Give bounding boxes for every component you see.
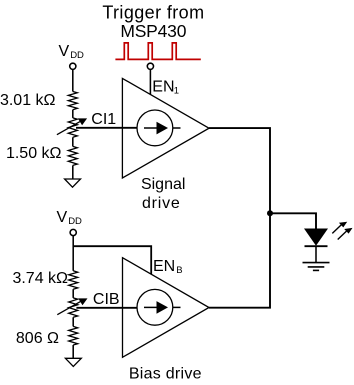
wire pot2 tap to amp input (76, 307, 137, 309)
svg-text:806 Ω: 806 Ω (16, 330, 59, 347)
svg-text:V: V (57, 209, 68, 226)
svg-text:Trigger from: Trigger from (102, 3, 204, 23)
svg-text:V: V (59, 43, 70, 60)
potentiometer body (bottom trimmer) (69, 298, 78, 317)
op-amp U1 signal drive triangle (122, 78, 209, 178)
svg-text:B: B (176, 265, 182, 276)
label ENB (153, 258, 183, 276)
wire pot to R2 (72, 137, 74, 146)
wire pot2 to R4 (72, 317, 74, 326)
ground (top divider) (65, 179, 81, 187)
svg-text:DD: DD (68, 216, 82, 227)
label EN1 (152, 79, 179, 97)
svg-text:3.74 kΩ: 3.74 kΩ (12, 270, 68, 287)
svg-text:Signal: Signal (141, 176, 185, 193)
power VDD (top) (59, 43, 85, 61)
resistor R2 1.50 k (68, 146, 77, 165)
wire U1 output to junction rail (209, 128, 270, 308)
wiper arrow (bottom trimmer) (57, 302, 80, 315)
svg-text:CIB: CIB (93, 291, 120, 308)
earth ground (LED) (303, 263, 330, 271)
wire LED to earth ground (315, 246, 317, 262)
svg-text:Bias drive: Bias drive (129, 365, 202, 382)
wire R1 to pot (72, 110, 74, 118)
wire VDD branch to ENB pin (73, 246, 151, 274)
wire R2 to ground (72, 165, 74, 179)
junction node (267, 210, 273, 216)
ground (bottom divider) (65, 358, 81, 366)
svg-text:CI1: CI1 (91, 111, 116, 128)
potentiometer body (top trimmer) (68, 118, 77, 137)
wire current source right stub (173, 127, 181, 129)
svg-text:EN: EN (153, 258, 175, 275)
resistor R4 806 (69, 326, 78, 345)
resistor R1 3.01 k (68, 92, 77, 110)
op-amp U2 bias drive triangle (123, 258, 210, 358)
wire VDD to R1 (72, 69, 74, 91)
power VDD (bottom) (57, 209, 83, 227)
wire VDD to R3 (72, 236, 74, 271)
svg-text:MSP430: MSP430 (120, 21, 186, 41)
svg-text:EN: EN (152, 79, 174, 96)
wiper arrow (top trimmer) (57, 122, 80, 135)
LED D1 (304, 229, 328, 246)
wire R3 to pot2 (72, 289, 74, 298)
label: Trigger from MSP430 (102, 3, 204, 41)
wire EN1 pin (149, 69, 151, 94)
wire junction to LED (270, 213, 316, 228)
current source symbol U2 (137, 289, 173, 325)
current source symbol U1 (137, 110, 173, 146)
svg-text:1: 1 (174, 85, 179, 96)
terminal circle (trigger input) (147, 63, 153, 69)
trigger pulse waveform (115, 43, 200, 60)
svg-text:1.50 kΩ: 1.50 kΩ (6, 145, 62, 162)
wire pot tap to amp input (76, 127, 137, 129)
svg-text:drive: drive (142, 195, 181, 212)
LED emission arrows (332, 224, 342, 233)
wire current source right stub (173, 306, 181, 308)
wire R4 to ground (72, 345, 74, 358)
resistor R3 3.74 k (69, 271, 78, 289)
label Signal drive (141, 176, 185, 212)
svg-text:3.01 kΩ: 3.01 kΩ (0, 92, 56, 109)
svg-text:DD: DD (70, 50, 84, 61)
